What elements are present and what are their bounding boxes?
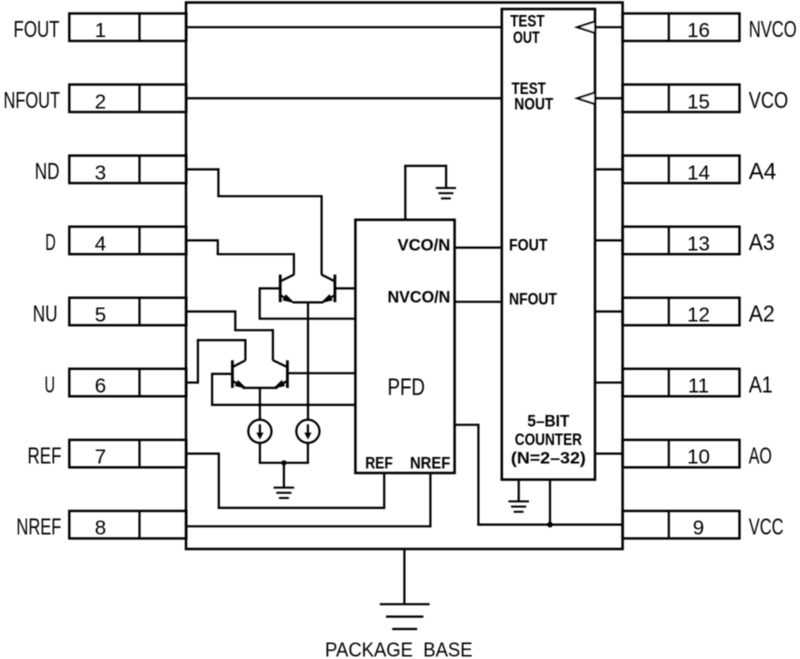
wire pin4 D to Q1 collector — [186, 239, 294, 275]
svg-text:A2: A2 — [749, 300, 775, 326]
wire counter to pin15 VCO — [595, 97, 623, 99]
pin 12 box (A2) — [623, 298, 740, 327]
wire PFD top to ground — [404, 165, 446, 220]
svg-text:FOUT: FOUT — [509, 237, 548, 255]
svg-text:6: 6 — [95, 375, 106, 398]
svg-text:14: 14 — [687, 161, 710, 184]
5-bit counter block U3 — [502, 9, 595, 480]
transistor Q2 (upper pair, right) — [322, 275, 335, 303]
wire counter bottom to VCC rail — [549, 480, 551, 525]
svg-text:4: 4 — [95, 232, 106, 255]
svg-text:AO: AO — [749, 442, 772, 468]
svg-text:(N=2–32): (N=2–32) — [511, 450, 586, 468]
pin 13 box (A3) — [623, 227, 740, 256]
wire counter bottom to ground — [518, 480, 520, 501]
svg-text:VCC: VCC — [749, 513, 784, 539]
svg-text:D: D — [45, 229, 56, 255]
transistor Q4 (lower pair, right) — [273, 360, 288, 388]
svg-text:15: 15 — [687, 90, 710, 113]
svg-text:U: U — [45, 371, 56, 397]
label TEST NOUT — [512, 80, 554, 114]
ground (package base) — [380, 604, 430, 629]
ground (counter) — [508, 501, 529, 511]
pin 7 box (REF) — [69, 440, 186, 469]
pin 2 box (NFOUT) — [69, 85, 186, 114]
svg-text:5–BIT: 5–BIT — [527, 413, 569, 431]
svg-text:NFOUT: NFOUT — [4, 87, 61, 113]
wire pin3 ND to Q2 collector — [186, 168, 322, 275]
wire counter to pin14 A4 — [595, 168, 623, 170]
svg-text:VCO: VCO — [749, 87, 788, 113]
svg-text:PFD: PFD — [387, 374, 425, 401]
wire counter to pin10 AO — [595, 453, 623, 455]
current source I1 — [248, 420, 271, 443]
input buffer arrow at TEST NOUT — [577, 93, 595, 104]
wire pin7 REF to PFD REF — [186, 453, 384, 509]
wire upper pair emitters — [293, 302, 324, 419]
wire PFD VCO/N to counter FOUT — [455, 247, 502, 249]
wire pin1 FOUT to TEST OUT — [186, 26, 502, 28]
label 5-BIT COUNTER (N=2-32) — [511, 413, 586, 468]
IC package outline U1 — [186, 3, 623, 550]
PFD block U2 — [355, 220, 454, 473]
svg-text:NREF: NREF — [410, 454, 450, 472]
svg-text:REF: REF — [365, 454, 393, 472]
svg-text:12: 12 — [687, 303, 710, 326]
pin 4 box (D) — [69, 227, 186, 256]
wire counter to pin11 A1 — [595, 381, 623, 383]
pin 15 box (VCO) — [623, 85, 740, 114]
ground (above PFD) — [436, 188, 456, 198]
svg-text:NREF: NREF — [16, 513, 61, 539]
wire PFD to VCC rail — [455, 424, 479, 525]
wire counter to pin12 A2 — [595, 310, 623, 312]
svg-text:PACKAGE BASE: PACKAGE BASE — [325, 640, 473, 659]
wire counter to pin16 NVCO — [595, 26, 623, 28]
wire pin8 NREF to PFD NREF — [186, 473, 430, 527]
svg-text:9: 9 — [693, 517, 704, 540]
transistor Q1 (upper pair, left) — [280, 275, 294, 303]
junction dot VCC node — [547, 522, 553, 528]
junction dot current source node — [281, 460, 286, 465]
svg-text:8: 8 — [95, 517, 106, 540]
svg-text:COUNTER: COUNTER — [515, 431, 582, 449]
ground (current sources) — [274, 488, 295, 498]
svg-text:ND: ND — [35, 158, 60, 184]
svg-text:13: 13 — [687, 232, 710, 255]
svg-text:7: 7 — [95, 446, 106, 469]
wire pin5 NU to Q4 collector — [186, 310, 273, 360]
pin 10 box (AO) — [623, 440, 740, 469]
wire pin2 NFOUT to TEST NOUT — [186, 97, 502, 99]
svg-text:2: 2 — [95, 90, 106, 113]
svg-text:NVCO/N: NVCO/N — [388, 289, 451, 307]
svg-text:FOUT: FOUT — [14, 16, 60, 42]
wire Q3 base return to PFD — [211, 373, 355, 405]
wire PFD NVCO/N to counter NFOUT — [455, 301, 502, 303]
wire Q2 base to PFD — [335, 287, 356, 289]
wire VCC rail to pin9 — [477, 523, 622, 525]
pin 11 box (A1) — [623, 369, 740, 398]
svg-text:NOUT: NOUT — [514, 96, 553, 114]
svg-text:A1: A1 — [749, 371, 773, 397]
wire pin6 U to Q3 collector — [186, 339, 245, 384]
wire current sources to ground node — [259, 443, 309, 487]
pin 5 box (NU) — [69, 298, 186, 327]
svg-text:16: 16 — [687, 19, 710, 42]
svg-text:A4: A4 — [749, 158, 777, 184]
label TEST OUT — [510, 12, 544, 47]
svg-text:NU: NU — [33, 300, 58, 326]
wire lower pair emitters — [243, 388, 278, 420]
pin 3 box (ND) — [69, 156, 186, 185]
pin 6 box (U) — [69, 369, 186, 398]
svg-text:1: 1 — [95, 19, 106, 42]
pin 14 box (A4) — [623, 156, 740, 185]
pin 9 box (VCC) — [623, 511, 740, 540]
svg-text:NFOUT: NFOUT — [509, 290, 557, 308]
svg-text:10: 10 — [687, 446, 710, 469]
svg-text:5: 5 — [95, 303, 106, 326]
svg-text:3: 3 — [95, 161, 106, 184]
input buffer arrow at TEST OUT — [577, 22, 595, 33]
transistor Q3 (lower pair, left) — [232, 360, 245, 388]
current source I2 — [296, 420, 319, 443]
svg-text:OUT: OUT — [513, 29, 540, 47]
wire Q1 base return to PFD — [259, 287, 356, 318]
svg-text:VCO/N: VCO/N — [398, 236, 451, 254]
svg-text:NVCO: NVCO — [749, 16, 797, 42]
svg-text:REF: REF — [28, 442, 62, 468]
pin 1 box (FOUT) — [69, 13, 186, 42]
svg-text:A3: A3 — [749, 229, 775, 255]
wire counter to pin13 A3 — [595, 239, 623, 241]
wire IC to package base ground — [403, 549, 405, 604]
pin 16 box (NVCO) — [623, 13, 740, 42]
pin 8 box (NREF) — [69, 511, 186, 540]
svg-text:11: 11 — [688, 375, 709, 398]
wire Q4 base to PFD — [287, 372, 355, 374]
svg-text:TEST: TEST — [510, 12, 544, 30]
